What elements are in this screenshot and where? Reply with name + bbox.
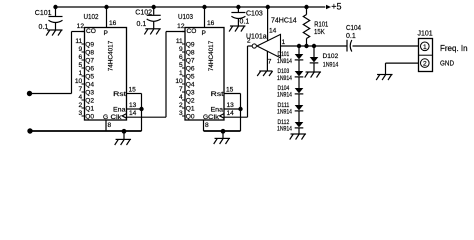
svg-text:Ena: Ena <box>211 106 224 113</box>
svg-text:Q1: Q1 <box>85 106 94 113</box>
svg-text:C102: C102 <box>135 10 152 17</box>
svg-text:14: 14 <box>269 28 277 35</box>
svg-text:Q4: Q4 <box>186 82 195 89</box>
svg-text:Q5: Q5 <box>85 74 94 81</box>
svg-text:9: 9 <box>179 46 183 53</box>
svg-text:Q6: Q6 <box>85 66 94 73</box>
svg-text:Q3: Q3 <box>186 90 195 97</box>
svg-text:15: 15 <box>226 87 234 94</box>
svg-text:D102: D102 <box>323 53 339 60</box>
svg-text:C104: C104 <box>346 25 361 32</box>
svg-text:0.1: 0.1 <box>137 21 147 28</box>
svg-text:G: G <box>103 114 108 121</box>
svg-text:Q2: Q2 <box>186 98 195 105</box>
svg-text:Q0: Q0 <box>186 114 195 121</box>
svg-text:CO: CO <box>187 28 197 35</box>
svg-text:8: 8 <box>205 122 209 129</box>
svg-text:Q7: Q7 <box>85 58 94 65</box>
svg-text:Ena: Ena <box>113 106 126 113</box>
svg-text:CO: CO <box>86 28 96 35</box>
svg-text:P: P <box>202 30 207 37</box>
svg-text:Rst: Rst <box>113 91 126 98</box>
svg-text:1N914: 1N914 <box>277 75 292 82</box>
svg-text:GND: GND <box>440 59 454 68</box>
svg-text:15: 15 <box>129 87 137 94</box>
svg-text:Q1: Q1 <box>186 106 195 113</box>
svg-text:C103: C103 <box>246 11 263 18</box>
svg-text:1: 1 <box>423 44 427 51</box>
svg-text:6: 6 <box>79 54 83 61</box>
svg-text:74HC14: 74HC14 <box>271 17 297 24</box>
svg-text:2: 2 <box>423 61 427 68</box>
svg-text:16: 16 <box>207 20 215 27</box>
svg-text:G: G <box>203 114 208 121</box>
svg-text:Q8: Q8 <box>85 50 94 57</box>
svg-text:Q4: Q4 <box>85 82 94 89</box>
svg-text:U103: U103 <box>178 14 193 21</box>
svg-text:13: 13 <box>227 102 235 109</box>
svg-text:1N914: 1N914 <box>277 126 292 133</box>
svg-text:14: 14 <box>129 110 137 117</box>
svg-text:1: 1 <box>79 70 83 77</box>
svg-text:1N914: 1N914 <box>277 92 292 99</box>
svg-text:1: 1 <box>282 39 286 46</box>
svg-text:1N914: 1N914 <box>323 61 339 68</box>
svg-text:7: 7 <box>179 86 183 93</box>
svg-text:2: 2 <box>79 102 83 109</box>
svg-text:0.1: 0.1 <box>240 18 250 25</box>
svg-text:Q5: Q5 <box>186 74 195 81</box>
svg-text:15K: 15K <box>314 29 325 36</box>
svg-text:R101: R101 <box>314 21 328 28</box>
svg-text:1: 1 <box>179 70 183 77</box>
svg-text:74HC4017: 74HC4017 <box>208 40 215 71</box>
svg-text:14: 14 <box>227 110 235 117</box>
svg-text:9: 9 <box>79 46 83 53</box>
svg-text:Q8: Q8 <box>186 50 195 57</box>
svg-text:2: 2 <box>247 38 251 45</box>
svg-text:16: 16 <box>109 20 117 27</box>
svg-text:Q0: Q0 <box>85 114 94 121</box>
svg-text:Q3: Q3 <box>85 90 94 97</box>
svg-text:7: 7 <box>268 58 272 65</box>
svg-text:11: 11 <box>176 38 183 45</box>
svg-text:13: 13 <box>129 102 137 109</box>
svg-text:Q2: Q2 <box>85 98 94 105</box>
svg-text:4: 4 <box>179 94 183 101</box>
svg-text:4: 4 <box>79 94 83 101</box>
svg-text:11: 11 <box>75 38 82 45</box>
svg-text:Clk: Clk <box>208 114 220 121</box>
svg-text:74HC4017: 74HC4017 <box>108 40 115 71</box>
svg-text:7: 7 <box>79 86 83 93</box>
svg-text:Q9: Q9 <box>186 42 195 49</box>
svg-text:2: 2 <box>179 102 183 109</box>
svg-text:1N914: 1N914 <box>277 58 292 65</box>
svg-text:Clk: Clk <box>111 114 123 121</box>
svg-text:P: P <box>104 30 109 37</box>
svg-text:C101: C101 <box>35 10 52 17</box>
svg-text:1N914: 1N914 <box>277 109 292 116</box>
svg-text:Q6: Q6 <box>186 66 195 73</box>
svg-text:Freq. In: Freq. In <box>440 44 468 53</box>
svg-text:U102: U102 <box>84 14 99 21</box>
svg-text:Q9: Q9 <box>85 42 94 49</box>
svg-text:3: 3 <box>179 110 183 117</box>
svg-text:5: 5 <box>79 62 83 69</box>
svg-text:Rst: Rst <box>211 91 224 98</box>
svg-text:+5: +5 <box>331 2 341 12</box>
svg-text:12: 12 <box>177 23 185 30</box>
svg-text:5: 5 <box>179 62 183 69</box>
svg-text:0.1: 0.1 <box>39 24 49 31</box>
svg-text:J101: J101 <box>418 30 433 37</box>
svg-text:6: 6 <box>179 54 183 61</box>
svg-text:10: 10 <box>75 78 83 85</box>
svg-text:12: 12 <box>77 23 85 30</box>
svg-text:8: 8 <box>108 122 112 129</box>
svg-text:Q7: Q7 <box>186 58 195 65</box>
svg-text:3: 3 <box>79 110 83 117</box>
svg-text:0.1: 0.1 <box>346 33 356 40</box>
svg-text:10: 10 <box>175 78 183 85</box>
